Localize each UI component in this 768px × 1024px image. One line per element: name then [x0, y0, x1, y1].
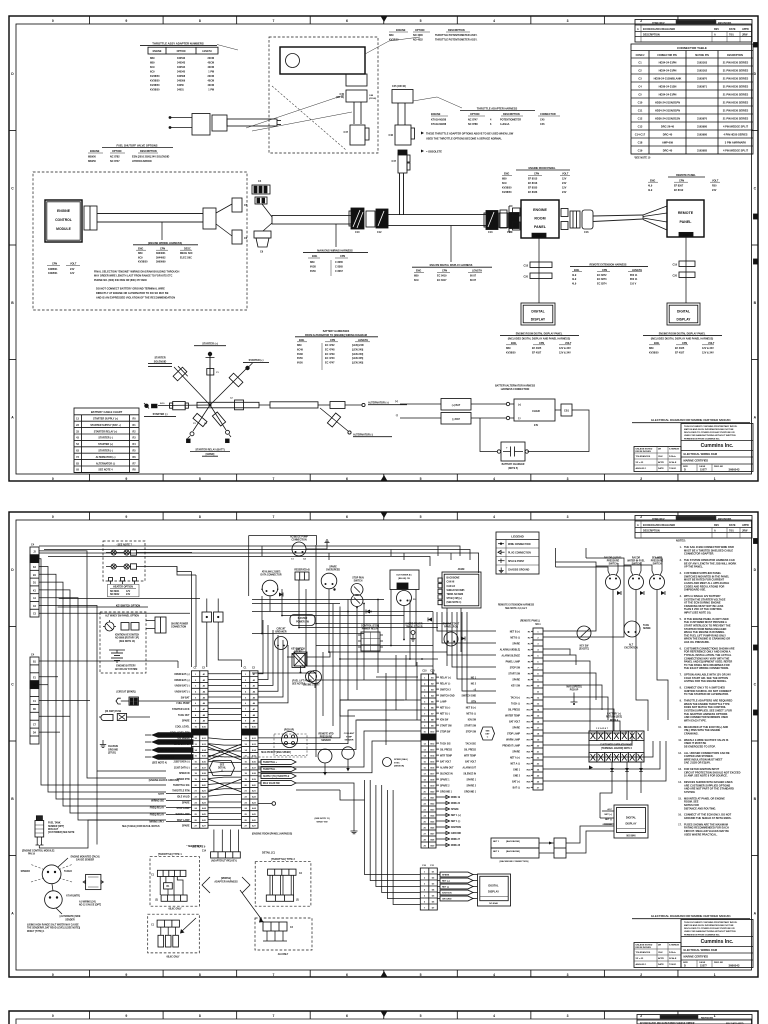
svg-text:ADAPTER HARNESS: ADAPTER HARNESS	[214, 880, 238, 883]
svg-text:9: 9	[125, 1014, 127, 1018]
svg-text:WATER-IN-FUEL: WATER-IN-FUEL	[627, 560, 645, 563]
inline connector C12 (dark)	[376, 209, 388, 228]
zone marker p2	[754, 539, 759, 544]
capacitor box	[497, 442, 528, 461]
svg-text:CONNECTION: CONNECTION	[291, 540, 307, 542]
svg-text:A3: A3	[203, 685, 206, 688]
svg-text:AMP-609: AMP-609	[662, 141, 674, 145]
svg-text:20: 20	[537, 745, 540, 747]
svg-text:(-): (-)	[518, 417, 521, 420]
svg-text:MAG [SPEED]: MAG [SPEED]	[566, 685, 581, 688]
svg-text:A4: A4	[253, 690, 256, 693]
svg-text:14: 14	[244, 749, 247, 752]
svg-text:D: D	[684, 468, 686, 472]
svg-text:* SEE NOTE 3: * SEE NOTE 3	[187, 846, 203, 848]
svg-text:D1: D1	[432, 871, 435, 873]
svg-text:SHIELD NO 8985: SHIELD NO 8985	[447, 590, 466, 592]
digital display box 2	[667, 303, 700, 325]
svg-text:1: 1	[424, 871, 426, 873]
svg-text:C4: C4	[31, 543, 35, 546]
leader C9 to harness	[263, 223, 272, 231]
svg-text:RELAY (-): RELAY (-)	[440, 682, 451, 685]
svg-text:[BILGE] CB: [BILGE] CB	[398, 578, 410, 580]
svg-text:C1: C1	[194, 667, 198, 669]
svg-text:Cummins Inc.: Cummins Inc.	[701, 939, 734, 945]
svg-text:43: 43	[76, 437, 79, 440]
svg-text:18: 18	[537, 733, 540, 735]
svg-text:17: 17	[424, 773, 427, 775]
svg-text:REVISIONS: REVISIONS	[718, 22, 732, 25]
svg-text:SENDER [OPT]: SENDER [OPT]	[48, 826, 64, 828]
svg-text:20: 20	[244, 785, 247, 787]
svg-text:OPTION: OPTION	[470, 113, 480, 116]
center fold marks	[381, 16, 388, 481]
svg-text:THE EXACT WIRING CONNECTIONS.: THE EXACT WIRING CONNECTIONS.	[684, 666, 729, 670]
svg-text:KEY SW: KEY SW	[511, 685, 521, 687]
svg-text:NO 12 GAUGE [OPT]: NO 12 GAUGE [OPT]	[79, 904, 101, 907]
svg-text:24: 24	[244, 807, 247, 810]
zone marker square right	[754, 214, 759, 219]
svg-text:SEE NOTE 2,3,4 & 5: SEE NOTE 2,3,4 & 5	[505, 607, 528, 610]
wire long horizontal A	[39, 612, 190, 614]
svg-text:STARTER (-): STARTER (-)	[153, 413, 168, 416]
starter relay ray (south)	[204, 405, 231, 443]
svg-text:4 PIN HD30 SERIES: 4 PIN HD30 SERIES	[723, 133, 747, 137]
svg-text:6C49: 6C49	[297, 348, 303, 351]
svg-text:340544: 340544	[177, 66, 186, 69]
battery terminal block positive	[441, 399, 471, 411]
inline connector body 2	[499, 213, 508, 228]
ECM power relay box	[358, 632, 383, 651]
svg-text:(FUEL LIFT PUMP): (FUEL LIFT PUMP)	[292, 680, 312, 682]
svg-text:6V38: 6V38	[297, 353, 303, 356]
svg-text:5: 5	[420, 19, 422, 23]
svg-text:83: 83	[76, 462, 79, 465]
svg-text:R1: R1	[167, 886, 171, 888]
svg-text:EC 8373: EC 8373	[597, 278, 607, 281]
svg-text:THIS DOCUMENT CONTAINS PROPRIE: THIS DOCUMENT CONTAINS PROPRIETARY INFOR…	[684, 921, 737, 924]
svg-text:ATA/LINK [J1587]: ATA/LINK [J1587]	[262, 571, 281, 574]
spare switch label	[326, 566, 340, 572]
svg-text:0: 0	[52, 515, 54, 519]
harness drop wire	[400, 173, 404, 215]
battery cable chart	[74, 408, 139, 473]
svg-text:5: 5	[195, 697, 197, 699]
circuit breaker CB1	[555, 404, 572, 416]
svg-text:CUSTOMER AC: CUSTOMER AC	[396, 574, 412, 577]
mesh extra horizontals	[316, 680, 433, 720]
svg-text:GROUND: GROUND	[442, 899, 452, 901]
svg-text:(+): (+)	[395, 401, 398, 403]
svg-text:R26: R26	[527, 781, 532, 783]
sensor drop wires	[613, 590, 668, 732]
svg-text:ANGLES 1: ANGLES 1	[636, 963, 648, 966]
svg-text:MATION AND SUCH INFORMATION MA: MATION AND SUCH INFORMATION MAY NOT BE	[684, 428, 734, 431]
svg-text:K2: K2	[33, 567, 37, 569]
svg-text:NET (+): NET (+)	[442, 881, 450, 883]
svg-text:ALTERNATOR (+): ALTERNATOR (+)	[368, 402, 389, 405]
svg-text:D5: D5	[432, 895, 435, 897]
arrow into type 3 box	[180, 918, 196, 934]
engine start panel circle	[444, 632, 458, 646]
svg-text:3408501: 3408501	[48, 268, 58, 271]
AC bilge gauge	[290, 536, 308, 561]
svg-text:THIS DOCUMENT CONTAINS PROPRIE: THIS DOCUMENT CONTAINS PROPRIETARY INFOR…	[684, 425, 737, 428]
svg-text:LENGTH: LENGTH	[632, 269, 642, 272]
svg-text:R8: R8	[132, 469, 136, 472]
svg-text:KV38/50: KV38/50	[150, 84, 160, 87]
svg-text:FUEL PUMP: FUEL PUMP	[177, 703, 190, 705]
svg-text:C: C	[754, 187, 757, 191]
svg-text:(2): (2)	[155, 899, 158, 901]
svg-text:DATE: DATE	[729, 524, 736, 527]
svg-text:12: 12	[537, 697, 540, 699]
svg-text:D: D	[754, 568, 757, 572]
svg-text:R5: R5	[132, 450, 136, 453]
svg-text:12V: 12V	[126, 591, 131, 593]
svg-text:DESCRIPTION: DESCRIPTION	[448, 29, 465, 32]
svg-text:TO THE STARTER OR ALTERNATOR.: TO THE STARTER OR ALTERNATOR.	[684, 692, 729, 696]
svg-text:21: 21	[537, 751, 540, 753]
connector C47B	[392, 150, 410, 173]
svg-text:C1: C1	[151, 874, 155, 876]
svg-text:A1: A1	[33, 597, 37, 600]
fuel sender wire	[39, 845, 88, 849]
svg-text:ALTERNATOR (+): ALTERNATOR (+)	[160, 734, 179, 737]
ECM pin label	[22, 850, 54, 855]
svg-text:PREHEAT LAMP: PREHEAT LAMP	[502, 744, 520, 747]
svg-text:TACH SIG: TACH SIG	[440, 742, 451, 745]
svg-text:3.: 3.	[680, 573, 682, 575]
svg-text:6V50: 6V50	[297, 362, 303, 365]
zone tick marks and numbers	[52, 512, 716, 977]
svg-text:(REMOTE PANEL): (REMOTE PANEL)	[520, 619, 540, 622]
svg-text:6B9/50: 6B9/50	[88, 160, 97, 163]
svg-text:SILENCE IN: SILENCE IN	[463, 773, 476, 775]
svg-text:D3: D3	[432, 883, 435, 885]
center fold marks	[381, 512, 388, 977]
svg-text:GROUND 1: GROUND 1	[440, 791, 453, 793]
zone marker p2c	[754, 645, 759, 650]
svg-text:2: 2	[245, 680, 247, 682]
svg-text:DISPLAY: DISPLAY	[677, 318, 692, 322]
svg-text:ELECTRICAL DIAGRAM FOR MARINE: ELECTRICAL DIAGRAM FOR MARINE CERTIFIED …	[651, 914, 731, 918]
svg-text:7: 7	[272, 19, 274, 23]
svg-text:C45 (OR 46): C45 (OR 46)	[392, 85, 406, 88]
svg-text:C11: C11	[638, 109, 643, 113]
svg-text:ALTERNATOR (-): ALTERNATOR (-)	[96, 462, 115, 465]
svg-text:DIGITAL: DIGITAL	[626, 816, 637, 820]
engine start panel label	[443, 622, 460, 628]
svg-text:A16: A16	[202, 760, 207, 763]
svg-text:6: 6	[346, 1014, 348, 1018]
svg-text:A20: A20	[252, 784, 257, 787]
svg-text:BATTERY/ALTERNATOR HARNESS: BATTERY/ALTERNATOR HARNESS	[495, 384, 536, 387]
svg-text:(OR 46): (OR 46)	[369, 97, 376, 100]
svg-text:7/16/01: 7/16/01	[669, 964, 677, 966]
svg-text:24V: 24V	[562, 191, 567, 194]
svg-text:2.: 2.	[680, 560, 682, 562]
svg-text:NC 8747: NC 8747	[468, 119, 478, 122]
svg-text:CHGR: CHGR	[532, 409, 540, 413]
svg-text:KEY SW: KEY SW	[580, 645, 590, 647]
svg-text:N-10: N-10	[160, 403, 165, 405]
svg-text:24V: 24V	[70, 268, 75, 271]
svg-text:B1: B1	[33, 575, 37, 577]
svg-text:DE-ENERGIZED TO STOP.: DE-ENERGIZED TO STOP.	[684, 744, 716, 748]
svg-text:17: 17	[194, 767, 197, 769]
svg-text:NO 8842: NO 8842	[110, 593, 120, 596]
revision block page 3	[637, 1015, 752, 1024]
svg-text:R2: R2	[132, 430, 136, 433]
svg-text:TERM. NO 8986: TERM. NO 8986	[447, 594, 464, 596]
svg-text:C4: C4	[31, 653, 35, 656]
svg-text:4: 4	[537, 648, 539, 651]
svg-text:A: A	[637, 28, 639, 31]
svg-text:STARTER (+): STARTER (+)	[249, 359, 264, 362]
svg-text:SUPPLY [5V] THROTTLE: SUPPLY [5V] THROTTLE	[263, 776, 290, 778]
svg-text:C48: C48	[369, 94, 374, 97]
svg-text:22: 22	[194, 796, 197, 798]
svg-text:SPARE 1: SPARE 1	[467, 778, 477, 781]
svg-text:12V & 24V: 12V & 24V	[559, 351, 571, 354]
svg-text:WATER TEMP: WATER TEMP	[505, 714, 520, 717]
svg-text:R17: R17	[527, 727, 532, 729]
ATA connector label	[261, 571, 282, 577]
ATA connector circle	[261, 580, 279, 596]
svg-text:SPARE: SPARE	[329, 566, 337, 569]
svg-text:THE SENDER/FLOAT READ LEVELS [: THE SENDER/FLOAT READ LEVELS [SEE NOTE])	[27, 927, 80, 930]
arrow into type 4 box	[240, 890, 264, 923]
svg-text:20: 20	[424, 791, 427, 793]
connector C4 (striped)	[252, 185, 270, 204]
starter junction node	[209, 404, 212, 407]
svg-text:C 8367: C 8367	[335, 270, 344, 273]
svg-text:A9: A9	[253, 720, 256, 723]
battery harness table	[295, 330, 378, 370]
keyswitch dashed box	[100, 612, 146, 673]
svg-text:A13: A13	[252, 743, 257, 746]
svg-text:GROUND THE SHIELD AT BOTH ENDS: GROUND THE SHIELD AT BOTH ENDS.	[684, 816, 732, 820]
terminal board diodes	[589, 763, 643, 777]
svg-text:ENG: ENG	[574, 269, 579, 272]
svg-text:31 PIN HD30 SERIES: 31 PIN HD30 SERIES	[723, 85, 749, 89]
svg-text:= OBSOLETE: = OBSOLETE	[426, 151, 442, 154]
svg-text:3163162: 3163162	[697, 69, 708, 73]
svg-text:21 PIN HD30 SERIES: 21 PIN HD30 SERIES	[723, 77, 749, 81]
svg-text:DESCRIPTION: DESCRIPTION	[727, 55, 743, 57]
svg-text:DIGITAL: DIGITAL	[677, 310, 690, 314]
svg-text:WTR TEMP: WTR TEMP	[440, 755, 452, 757]
svg-text:A6: A6	[253, 702, 256, 705]
svg-text:5: 5	[424, 895, 426, 897]
top bus drops	[262, 546, 451, 560]
remote extension harness label	[498, 604, 535, 610]
svg-text:SCALE: SCALE	[669, 461, 677, 464]
svg-text:UNSW BAT (-): UNSW BAT (-)	[175, 690, 190, 693]
svg-text:POWER SW: POWER SW	[296, 622, 310, 624]
battery symbol	[109, 650, 125, 663]
svg-text:B7: B7	[431, 713, 434, 715]
svg-text:24: 24	[194, 807, 197, 810]
fuel lift pump circle	[292, 671, 322, 689]
svg-text:TACH: TACH	[643, 624, 649, 627]
svg-text:[BACKBONE]: [BACKBONE]	[506, 840, 520, 843]
svg-text:W/KEY [TYPE] 1: W/KEY [TYPE] 1	[27, 931, 45, 933]
svg-text:63: 63	[76, 450, 79, 453]
svg-text:REV: REV	[714, 28, 719, 31]
svg-text:XX =.25: XX =.25	[636, 462, 644, 464]
svg-text:J1587 DATA (+): J1587 DATA (+)	[173, 760, 189, 763]
svg-text:A7: A7	[253, 708, 256, 711]
svg-text:C4: C4	[638, 85, 642, 89]
svg-text:[THROTTLE] TYPE 2: [THROTTLE] TYPE 2	[271, 858, 295, 861]
svg-text:6B9: 6B9	[150, 57, 155, 60]
svg-text:XX =.25: XX =.25	[636, 958, 644, 960]
throttle type 1 internals	[151, 870, 187, 910]
svg-text:SCALE: SCALE	[669, 957, 677, 960]
svg-text:AT HR [MTR]: AT HR [MTR]	[66, 894, 80, 897]
inline connector C13 (striped)	[484, 211, 498, 230]
svg-text:SEE NOTE 4: SEE NOTE 4	[98, 469, 113, 472]
svg-text:9: 9	[125, 19, 127, 23]
fuel solenoid valve	[212, 115, 227, 131]
svg-text:IDLE VALID: IDLE VALID	[177, 795, 190, 798]
svg-text:DET: DET	[485, 734, 490, 736]
svg-text:[STUD]: [STUD]	[108, 753, 116, 755]
svg-text:C1: C1	[291, 559, 295, 561]
svg-text:MATING P/N: MATING P/N	[695, 54, 709, 57]
svg-text:USED FOR MANUFACTURING WITHOUT: USED FOR MANUFACTURING WITHOUT WRITTEN	[684, 930, 736, 933]
svg-text:6: 6	[424, 901, 426, 903]
svg-text:[30 AMP] FUSE: [30 AMP] FUSE	[105, 710, 122, 713]
svg-text:WITH EACH TYPE.: WITH EACH TYPE.	[684, 718, 707, 722]
svg-text:1: 1	[245, 674, 247, 676]
circuit breaker label	[275, 628, 287, 633]
svg-text:NO 8946: NO 8946	[489, 902, 498, 905]
svg-text:HD36-24-21SN/BLANK: HD36-24-21SN/BLANK	[654, 77, 682, 81]
svg-text:13: 13	[537, 703, 540, 705]
throttle option table	[389, 29, 478, 42]
svg-text:R1: R1	[528, 631, 532, 633]
svg-text:3163970: 3163970	[697, 117, 708, 121]
svg-text:SEE: SEE	[485, 731, 490, 733]
panel diode	[461, 637, 465, 641]
svg-text:4: 4	[493, 477, 495, 481]
svg-text:NET B (-): NET B (-)	[466, 713, 476, 715]
svg-text:C3: C3	[290, 927, 294, 929]
svg-text:DESCRIPTION: DESCRIPTION	[643, 530, 660, 533]
svg-text:C2: C2	[252, 667, 256, 669]
connector C45B	[392, 90, 413, 104]
svg-text:ENGINE: ENGINE	[90, 150, 100, 153]
svg-text:A: A	[637, 524, 639, 527]
svg-text:DRC-40: DRC-40	[663, 149, 673, 153]
keyswitch connector pair	[155, 617, 189, 633]
svg-text:J1939: J1939	[458, 568, 465, 571]
svg-text:EF 8267: EF 8267	[674, 185, 684, 188]
svg-text:DATE: DATE	[729, 28, 736, 31]
svg-text:J3: J3	[33, 552, 36, 554]
zone tick marks page 3	[52, 1011, 716, 1019]
svg-text:NET A (-): NET A (-)	[511, 762, 521, 765]
svg-text:ALT: ALT	[629, 643, 634, 646]
svg-text:R12: R12	[527, 697, 532, 699]
svg-text:POWER RELAY: POWER RELAY	[362, 627, 379, 630]
svg-text:31 PIN HD30 SERIES: 31 PIN HD30 SERIES	[723, 69, 749, 73]
svg-text:9: 9	[125, 515, 127, 519]
svg-text:A25: A25	[252, 813, 257, 816]
svg-text:NET A (+): NET A (+)	[510, 756, 520, 759]
svg-text:UNSW BAT (+): UNSW BAT (+)	[174, 679, 190, 682]
svg-text:2: 2	[640, 973, 642, 977]
svg-text:FUEL TANK: FUEL TANK	[48, 822, 61, 825]
svg-text:THROTTLE +: THROTTLE +	[263, 762, 278, 764]
wire bundle left strip lower stubs	[39, 661, 178, 732]
svg-text:MECH S6C: MECH S6C	[180, 252, 193, 255]
svg-text:DISTANCE AND ROUTING.: DISTANCE AND ROUTING.	[684, 806, 716, 810]
svg-text:15277: 15277	[700, 469, 707, 472]
svg-text:24V: 24V	[562, 182, 567, 185]
svg-text:10.: 10.	[678, 727, 682, 729]
svg-text:25: 25	[424, 821, 427, 823]
svg-text:4L9: 4L9	[572, 283, 577, 286]
svg-text:A16: A16	[252, 760, 257, 763]
svg-text:12V OR 24V SYSTEM: 12V OR 24V SYSTEM	[115, 668, 138, 671]
svg-text:REMOTE PANEL: REMOTE PANEL	[676, 174, 696, 177]
svg-text:B16: B16	[431, 767, 436, 769]
svg-text:A8: A8	[253, 714, 256, 717]
svg-text:R4: R4	[132, 443, 136, 446]
svg-text:TOLERANCES: TOLERANCES	[636, 951, 651, 954]
svg-text:EXCITATION: EXCITATION	[624, 647, 638, 650]
svg-text:[MORSE]: [MORSE]	[221, 878, 231, 880]
sensor switch at x=657	[650, 557, 666, 595]
svg-text:(SEE NOTE 1): (SEE NOTE 1)	[447, 602, 462, 604]
svg-text:ALARM SILENCE: ALARM SILENCE	[502, 654, 521, 657]
battery return label	[606, 712, 622, 721]
svg-text:7/16/01: 7/16/01	[669, 468, 677, 470]
svg-text:C 8365: C 8365	[335, 261, 344, 264]
svg-text:PLUG CONNECTION: PLUG CONNECTION	[508, 552, 531, 554]
svg-text:A3: A3	[253, 685, 256, 688]
svg-text:C20: C20	[430, 671, 435, 673]
svg-text:D0: D0	[33, 709, 37, 711]
svg-text:REMOTE EXTENSION HARNESS: REMOTE EXTENSION HARNESS	[589, 263, 626, 266]
svg-text:LENGTH: LENGTH	[202, 51, 212, 53]
svg-text:ELECTRICAL WIRING DGM: ELECTRICAL WIRING DGM	[684, 452, 718, 456]
svg-text:CHASSIS: CHASSIS	[108, 745, 119, 748]
svg-text:R3: R3	[132, 437, 136, 440]
svg-text:SWITCH GND: SWITCH GND	[440, 695, 455, 697]
svg-text:6B9/50: 6B9/50	[88, 156, 97, 159]
svg-text:KTA19-M3/38: KTA19-M3/38	[431, 119, 447, 122]
svg-text:B: B	[754, 797, 757, 801]
svg-text:[ALTERNATE] SIDE: [ALTERNATE] SIDE	[60, 915, 81, 918]
leader line to option table	[365, 37, 420, 54]
svg-text:K1: K1	[33, 590, 37, 592]
keyswitch text	[115, 634, 140, 642]
svg-text:DIM IN INCHES: DIM IN INCHES	[636, 451, 652, 453]
sensor switch at x=613	[604, 557, 623, 595]
svg-text:A5: A5	[253, 696, 256, 699]
svg-text:HAS OIL PRESSURE.: HAS OIL PRESSURE.	[684, 640, 710, 644]
svg-text:NO 8946: NO 8946	[626, 834, 636, 837]
svg-text:LAMP: LAMP	[440, 700, 447, 703]
svg-text:NET B (+): NET B (+)	[510, 631, 520, 633]
svg-text:DRC-40: DRC-40	[663, 133, 673, 137]
svg-text:2: 2	[537, 637, 539, 639]
